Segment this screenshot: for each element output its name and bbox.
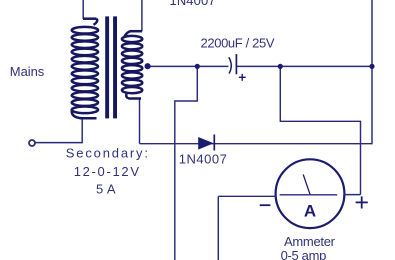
- svg-text:Mains: Mains: [10, 64, 45, 79]
- svg-text:A: A: [304, 201, 316, 220]
- svg-text:2200uF / 25V: 2200uF / 25V: [201, 36, 275, 51]
- svg-text:12-0-12V: 12-0-12V: [74, 164, 140, 179]
- svg-text:5A: 5A: [96, 182, 116, 197]
- svg-text:0-5 amp: 0-5 amp: [281, 248, 327, 260]
- svg-text:1N4007: 1N4007: [170, 0, 216, 8]
- svg-text:Secondary:: Secondary:: [66, 146, 148, 161]
- svg-text:1N4007: 1N4007: [179, 152, 227, 167]
